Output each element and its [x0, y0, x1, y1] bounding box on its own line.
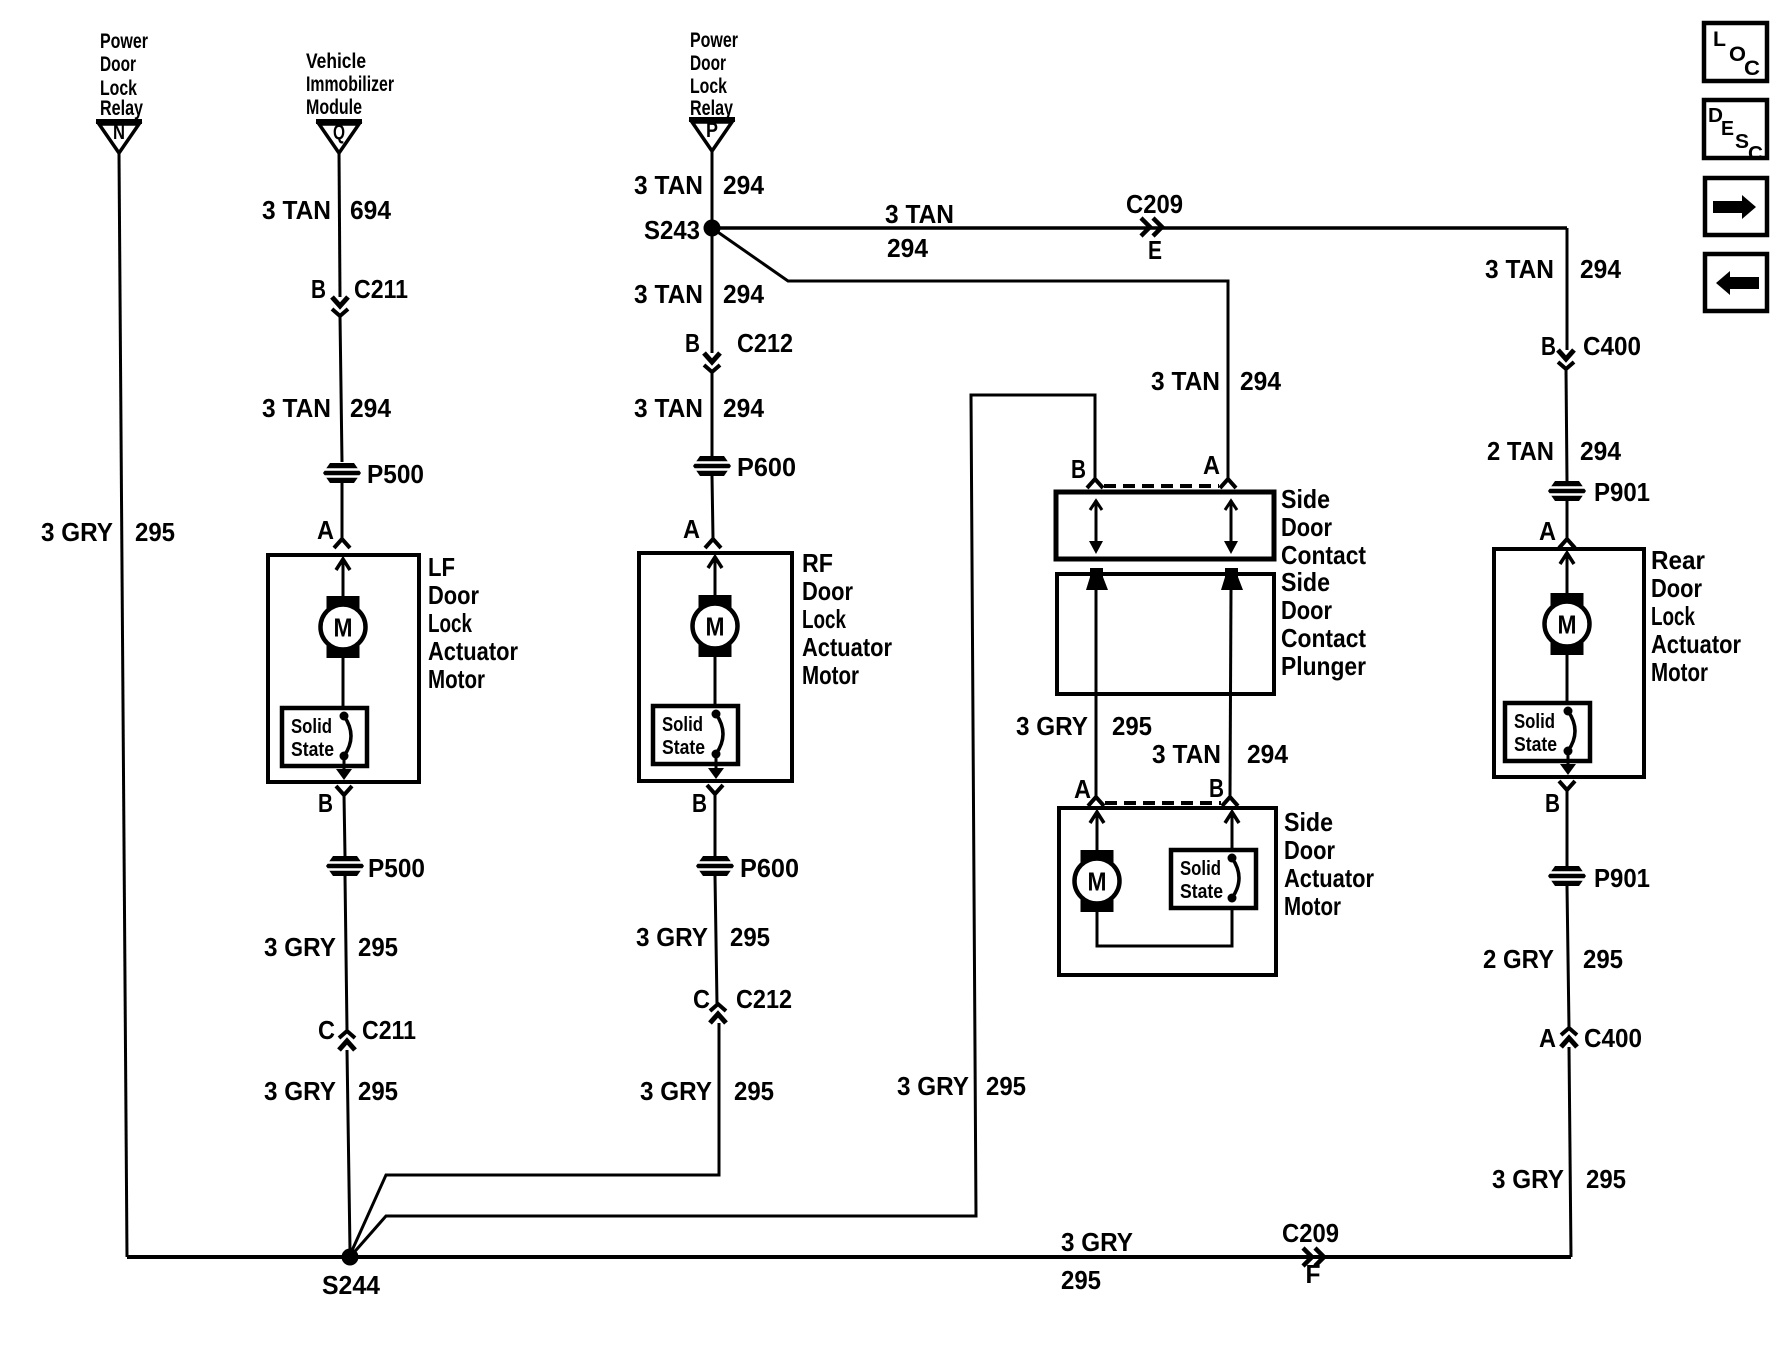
svg-text:B: B	[311, 274, 326, 304]
inline connector C211 pin C (pass up)	[339, 1031, 355, 1050]
internal arrow up (side actuator pin B)	[1225, 812, 1239, 823]
wire: rear pin B to grommet P901	[1566, 790, 1569, 866]
wire: C211 pin C to splice S244	[347, 1050, 350, 1250]
svg-text:P901: P901	[1594, 863, 1650, 893]
wire: S243 diagonal branch to side door contact pin A (3 TAN 294)	[712, 228, 1228, 478]
svg-text:Immobilizer: Immobilizer	[306, 73, 394, 96]
internal wire: pin A to motor (LF)	[342, 562, 345, 598]
internal wire: pin A to motor (rear)	[1566, 556, 1569, 594]
svg-text:Side: Side	[1281, 567, 1330, 597]
internal wire: motor to solid state bottom link (side actuator)	[1097, 906, 1232, 946]
svg-text:B: B	[1071, 454, 1086, 484]
internal wire: solid state to pin B (LF)	[343, 756, 346, 770]
svg-text:Actuator: Actuator	[428, 636, 518, 666]
svg-text:Module: Module	[306, 96, 362, 119]
contact arrow (right, double-headed)	[1224, 500, 1238, 554]
svg-text:C209: C209	[1126, 189, 1183, 219]
svg-text:State: State	[1180, 881, 1223, 903]
svg-text:2 TAN: 2 TAN	[1487, 436, 1554, 466]
svg-text:Contact: Contact	[1281, 623, 1366, 653]
value label 2 GRY 295	[1483, 944, 1623, 974]
svg-text:Lock: Lock	[1651, 601, 1695, 631]
value label 3 GRY 295 (RF upper)	[636, 922, 770, 952]
inline connector C212 pin B (pass down)	[704, 353, 720, 372]
wire: C212 to grommet P600	[711, 372, 714, 456]
wire: S243 down to connector C212 pin B	[711, 236, 714, 353]
wire: relay N down to bottom bus (3 GRY 295)	[119, 153, 127, 1257]
wire: plunger left down to side door actuator pin A (3 GRY 295)	[1095, 590, 1098, 796]
svg-text:C400: C400	[1584, 1023, 1642, 1053]
internal arrow up (rear pin A)	[1560, 553, 1574, 564]
component label: Side Door Actuator Motor	[1284, 807, 1374, 921]
terminal A female (RF actuator)	[705, 539, 721, 548]
svg-text:294: 294	[1580, 436, 1622, 466]
svg-text:B: B	[1545, 788, 1560, 818]
contact arrow (left, double-headed)	[1089, 500, 1103, 554]
wire: P901 to connector C400 pin A	[1567, 886, 1569, 1028]
svg-text:Vehicle: Vehicle	[306, 50, 366, 73]
svg-text:E: E	[1721, 118, 1734, 140]
value label 3 GRY 295 (LF lower)	[264, 1076, 398, 1106]
wire: C211 to grommet P500	[340, 316, 342, 462]
module label: Power Door Lock Relay (center)	[690, 29, 738, 120]
wire: S243 to C209 pin E and right branch (3 TAN 294)	[712, 226, 1567, 230]
svg-text:B: B	[1209, 773, 1224, 803]
svg-text:294: 294	[1247, 739, 1289, 769]
terminal A female (side door actuator)	[1088, 797, 1104, 806]
svg-text:P500: P500	[368, 853, 425, 883]
internal wire: solid state to pin B (rear)	[1567, 751, 1570, 764]
svg-text:B: B	[1541, 331, 1556, 361]
svg-text:A: A	[1539, 516, 1556, 546]
svg-text:Side: Side	[1281, 484, 1330, 514]
svg-text:3 TAN: 3 TAN	[634, 393, 703, 423]
LF door lock actuator motor box	[268, 555, 419, 782]
svg-text:295: 295	[1586, 1164, 1626, 1194]
svg-text:E: E	[1148, 235, 1162, 265]
terminal B female (RF actuator)	[707, 785, 723, 794]
wire: P901 to rear actuator pin A	[1566, 501, 1569, 538]
svg-text:Actuator: Actuator	[1284, 863, 1374, 893]
svg-text:Relay: Relay	[100, 97, 143, 120]
pin label C / connector label C212 (return)	[693, 984, 792, 1014]
svg-text:Solid: Solid	[662, 714, 703, 736]
side door actuator motor box	[1059, 808, 1276, 975]
component label: RF Door Lock Actuator Motor	[802, 548, 892, 690]
svg-text:Power: Power	[100, 30, 148, 53]
svg-text:294: 294	[723, 279, 765, 309]
internal wire: motor to solid state (rear)	[1566, 655, 1569, 705]
svg-text:Q: Q	[333, 121, 345, 144]
svg-text:3 TAN: 3 TAN	[262, 393, 331, 423]
svg-text:C211: C211	[362, 1015, 416, 1045]
svg-text:M: M	[1558, 610, 1577, 640]
svg-text:S: S	[1735, 131, 1749, 153]
svg-text:C209: C209	[1282, 1218, 1339, 1248]
svg-text:State: State	[1514, 734, 1557, 756]
LOC button icon	[1704, 23, 1767, 81]
wire: top branch down to connector C400 pin B	[1566, 228, 1569, 350]
svg-text:Contact: Contact	[1281, 540, 1366, 570]
svg-text:P500: P500	[367, 459, 424, 489]
internal wire: motor to solid state (LF)	[342, 658, 345, 710]
svg-text:Power: Power	[690, 29, 738, 52]
motor M (RF door lock actuator)	[693, 595, 738, 657]
value label 3 GRY 295 (right lower)	[1492, 1164, 1626, 1194]
pin label B / connector label C212	[685, 328, 793, 358]
svg-text:3 TAN: 3 TAN	[1152, 739, 1221, 769]
grommet P500 (lower)	[326, 856, 364, 876]
value label 3 TAN 294 (above S243)	[634, 170, 765, 200]
svg-text:294: 294	[1580, 254, 1622, 284]
inline connector C212 pin C (pass up)	[710, 1004, 726, 1023]
grommet P901 (upper)	[1548, 481, 1586, 501]
svg-text:A: A	[317, 515, 334, 545]
svg-text:Motor: Motor	[1651, 657, 1708, 687]
connector triangle N (Power Door Lock Relay)	[96, 121, 142, 153]
svg-text:3 GRY: 3 GRY	[636, 922, 708, 952]
solid state switch (RF)	[653, 706, 738, 764]
svg-text:Lock: Lock	[802, 604, 846, 634]
value label 3 GRY 295 (RF lower)	[640, 1076, 774, 1106]
svg-text:294: 294	[350, 393, 392, 423]
solid state switch (LF)	[282, 708, 367, 766]
svg-text:C: C	[1748, 143, 1763, 165]
pin label A / connector label C400 (return)	[1539, 1023, 1642, 1053]
inline connector C211 pin B (pass down)	[332, 297, 348, 316]
value label 2 TAN 294	[1487, 436, 1622, 466]
value label 3 GRY 295 (LF upper)	[264, 932, 398, 962]
dashed connector face line (side door actuator)	[1105, 801, 1221, 805]
DESC button icon	[1704, 100, 1767, 165]
plunger symbol (left)	[1086, 568, 1108, 590]
wire: C400 pin A down to bottom bus	[1569, 1047, 1571, 1257]
internal wire: pin B to solid state (side actuator)	[1231, 815, 1234, 852]
wire: P600 to connector C212 pin C	[715, 876, 717, 1004]
svg-text:P901: P901	[1594, 477, 1650, 507]
svg-text:P600: P600	[737, 452, 796, 482]
motor M (LF door lock actuator)	[321, 596, 366, 658]
svg-text:294: 294	[887, 233, 929, 263]
svg-text:Lock: Lock	[428, 608, 472, 638]
svg-text:B: B	[318, 788, 333, 818]
svg-text:295: 295	[734, 1076, 774, 1106]
component label: Rear Door Lock Actuator Motor	[1651, 545, 1741, 687]
component label: Side Door Contact	[1281, 484, 1366, 570]
svg-text:294: 294	[723, 393, 765, 423]
terminal A female (rear actuator)	[1559, 539, 1575, 548]
back arrow button icon	[1705, 254, 1767, 311]
svg-text:B: B	[692, 788, 707, 818]
RF door lock actuator motor box	[639, 553, 792, 781]
internal arrow up (side actuator pin A)	[1090, 812, 1104, 823]
terminal B female (side door contact)	[1087, 479, 1103, 488]
splice junction S243	[704, 220, 721, 237]
wire: LF pin B to grommet P500	[344, 795, 345, 856]
svg-text:2 GRY: 2 GRY	[1483, 944, 1554, 974]
value label 3 TAN 294 (branch to contact A)	[1151, 366, 1282, 396]
svg-text:Door: Door	[100, 53, 136, 76]
svg-text:C: C	[1744, 57, 1760, 80]
svg-text:295: 295	[730, 922, 770, 952]
svg-text:3 TAN: 3 TAN	[262, 195, 331, 225]
svg-text:Door: Door	[802, 576, 853, 606]
value label 3 TAN 294 (above P600)	[634, 393, 765, 423]
value label 3 TAN 294 (right branch)	[1485, 254, 1622, 284]
module label: Power Door Lock Relay (left)	[100, 30, 148, 120]
internal arrow down (LF pin B)	[336, 769, 352, 780]
svg-text:State: State	[291, 739, 334, 761]
svg-text:Side: Side	[1284, 807, 1333, 837]
svg-text:294: 294	[723, 170, 765, 200]
value label 3 GRY 295 (plunger left)	[1016, 711, 1152, 741]
svg-text:F: F	[1306, 1259, 1321, 1289]
svg-text:P: P	[706, 119, 718, 142]
svg-text:Door: Door	[1281, 595, 1332, 625]
terminal B female (side door actuator)	[1222, 797, 1238, 806]
svg-text:Door: Door	[428, 580, 479, 610]
value label 3 TAN 294 (plunger right)	[1152, 739, 1289, 769]
value label 3 TAN 294	[262, 393, 392, 423]
svg-text:LF: LF	[428, 552, 455, 582]
pin label B / connector label C400	[1541, 331, 1641, 361]
svg-text:Actuator: Actuator	[1651, 629, 1741, 659]
connector triangle Q (Vehicle Immobilizer Module)	[316, 121, 362, 153]
terminal A female (side door contact)	[1220, 479, 1236, 488]
svg-text:C212: C212	[737, 328, 793, 358]
internal wire: solid state to pin B (RF)	[715, 754, 718, 768]
svg-text:295: 295	[1061, 1265, 1101, 1295]
wire: P500 to connector C211 pin C	[345, 876, 347, 1030]
grommet P600 (upper)	[693, 456, 731, 476]
grommet P500 (upper)	[323, 463, 361, 483]
side door contact plunger box	[1057, 574, 1274, 694]
solid state switch (rear)	[1505, 703, 1590, 761]
value label 3 GRY / 295 on bottom bus	[1061, 1227, 1133, 1295]
svg-text:3 TAN: 3 TAN	[634, 279, 703, 309]
svg-text:Relay: Relay	[690, 97, 733, 120]
svg-text:3 TAN: 3 TAN	[1485, 254, 1554, 284]
svg-text:Motor: Motor	[802, 660, 859, 690]
rear door lock actuator motor box	[1494, 549, 1644, 777]
value label 3 TAN / 294 on horizontal wire	[885, 199, 954, 263]
wire: P600 to RF actuator pin A	[712, 476, 713, 538]
wire: plunger right down to side door actuator pin B (3 TAN 294)	[1230, 590, 1231, 796]
svg-text:B: B	[685, 328, 700, 358]
svg-text:294: 294	[1240, 366, 1282, 396]
svg-text:S243: S243	[644, 215, 700, 245]
svg-text:M: M	[706, 612, 725, 642]
svg-text:295: 295	[1583, 944, 1623, 974]
svg-text:A: A	[1203, 450, 1220, 480]
svg-text:Solid: Solid	[1514, 711, 1555, 733]
svg-text:3 TAN: 3 TAN	[1151, 366, 1220, 396]
internal arrow up (RF pin A)	[708, 557, 722, 568]
svg-text:Door: Door	[690, 52, 726, 75]
svg-text:M: M	[1088, 867, 1107, 897]
svg-text:S244: S244	[322, 1270, 381, 1300]
inline connector C400 pin B (pass down)	[1558, 350, 1574, 369]
inline connector C209 pin F (pass right)	[1303, 1248, 1324, 1266]
svg-text:Motor: Motor	[428, 664, 485, 694]
svg-text:C212: C212	[736, 984, 792, 1014]
solid state switch (side actuator)	[1171, 850, 1256, 908]
svg-text:295: 295	[1112, 711, 1152, 741]
value label 3 TAN 294 (below S243)	[634, 279, 765, 309]
terminal B female (LF actuator)	[336, 786, 352, 795]
svg-text:3 GRY: 3 GRY	[897, 1071, 969, 1101]
pin label C / connector label C211 (return)	[318, 1015, 416, 1045]
svg-text:A: A	[1539, 1023, 1556, 1053]
module label: Vehicle Immobilizer Module	[306, 50, 394, 119]
internal arrow up (LF pin A)	[336, 559, 350, 570]
svg-text:RF: RF	[802, 548, 833, 578]
svg-text:3 GRY: 3 GRY	[264, 1076, 336, 1106]
internal arrow down (RF pin B)	[708, 768, 724, 779]
svg-text:295: 295	[986, 1071, 1026, 1101]
grommet P600 (lower)	[696, 856, 734, 876]
wire: bottom ground bus (3 GRY 295)	[127, 1255, 1571, 1259]
wire: relay P to splice S243	[711, 149, 714, 228]
svg-text:C: C	[318, 1015, 335, 1045]
svg-text:295: 295	[358, 1076, 398, 1106]
svg-text:C: C	[693, 984, 710, 1014]
svg-text:Lock: Lock	[690, 75, 727, 98]
internal arrow down (rear pin B)	[1560, 764, 1576, 775]
svg-text:M: M	[334, 613, 353, 643]
svg-text:N: N	[113, 121, 125, 144]
dashed connector face line (side door contact)	[1104, 484, 1219, 488]
wire: C212 pin C to splice S244 (3 GRY 295)	[350, 1023, 719, 1255]
component label: Side Door Contact Plunger	[1281, 567, 1366, 681]
svg-text:3 GRY: 3 GRY	[1492, 1164, 1564, 1194]
component label: LF Door Lock Actuator Motor	[428, 552, 518, 694]
svg-text:State: State	[662, 737, 705, 759]
svg-text:3 GRY: 3 GRY	[264, 932, 336, 962]
wire: RF pin B to grommet P600	[714, 794, 717, 856]
svg-text:Motor: Motor	[1284, 891, 1341, 921]
wire: Q module to connector C211 pin B	[339, 151, 340, 297]
svg-text:C400: C400	[1583, 331, 1641, 361]
svg-text:3 GRY: 3 GRY	[41, 517, 113, 547]
svg-text:Door: Door	[1651, 573, 1702, 603]
svg-text:P600: P600	[740, 853, 799, 883]
value label 3 GRY 295 on left wire	[41, 517, 175, 547]
svg-text:Rear: Rear	[1651, 545, 1705, 575]
svg-text:3 GRY: 3 GRY	[1061, 1227, 1133, 1257]
side door contact box	[1056, 492, 1274, 559]
inline connector C209 pin E (pass right)	[1141, 218, 1162, 236]
internal wire: motor to solid state (RF)	[714, 657, 717, 708]
svg-text:C211: C211	[354, 274, 408, 304]
svg-text:Actuator: Actuator	[802, 632, 892, 662]
internal wire: pin A to motor (side actuator)	[1096, 815, 1099, 851]
value label 3 TAN 694	[262, 195, 392, 225]
pin label B / connector label C211	[311, 274, 408, 304]
connector triangle P (Power Door Lock Relay)	[689, 119, 735, 151]
motor M (rear door lock actuator)	[1545, 593, 1590, 655]
svg-text:3 GRY: 3 GRY	[640, 1076, 712, 1106]
wire: P500 to LF actuator pin A	[341, 483, 344, 538]
svg-text:Door: Door	[1281, 512, 1332, 542]
terminal A female (LF actuator)	[334, 539, 350, 548]
motor M (side door actuator)	[1075, 850, 1120, 912]
wire: C400 to grommet P901	[1566, 369, 1567, 481]
svg-text:295: 295	[358, 932, 398, 962]
svg-text:A: A	[683, 514, 700, 544]
inline connector C400 pin A (pass up)	[1561, 1028, 1577, 1047]
splice junction S244	[342, 1249, 359, 1266]
svg-text:295: 295	[135, 517, 175, 547]
plunger symbol (right)	[1221, 568, 1243, 590]
svg-text:Solid: Solid	[291, 716, 332, 738]
terminal B female (rear actuator)	[1559, 781, 1575, 790]
forward arrow button icon	[1705, 178, 1767, 235]
svg-text:694: 694	[350, 195, 392, 225]
internal wire: pin A to motor (RF)	[714, 560, 717, 597]
svg-text:L: L	[1713, 28, 1726, 51]
svg-text:Solid: Solid	[1180, 858, 1221, 880]
svg-text:3 TAN: 3 TAN	[634, 170, 703, 200]
svg-text:3 GRY: 3 GRY	[1016, 711, 1088, 741]
value label 3 GRY 295 (side door return)	[897, 1071, 1026, 1101]
grommet P901 (lower)	[1548, 866, 1586, 886]
svg-text:3 TAN: 3 TAN	[885, 199, 954, 229]
wire: side door contact pin B return to splice S244 (3 GRY 295)	[350, 395, 1095, 1257]
svg-text:A: A	[1074, 774, 1091, 804]
svg-text:Door: Door	[1284, 835, 1335, 865]
svg-text:Plunger: Plunger	[1281, 651, 1366, 681]
